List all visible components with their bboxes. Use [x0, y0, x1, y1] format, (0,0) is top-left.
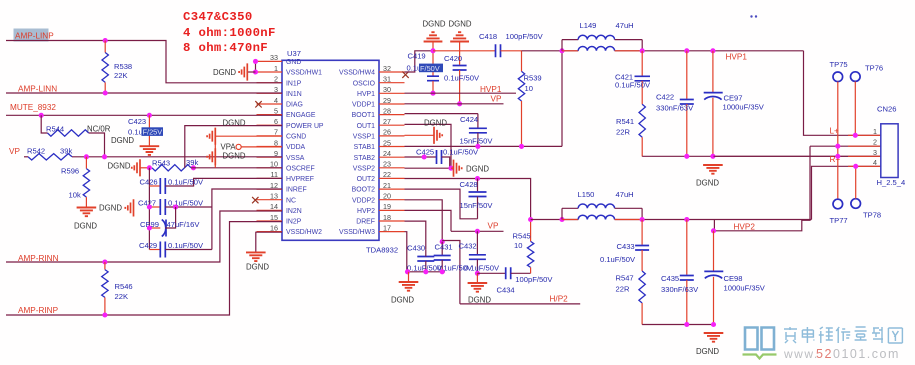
U37 pin numbers: [270, 53, 391, 232]
test point TP75: [833, 72, 843, 82]
svg-text:100pF/50V: 100pF/50V: [515, 275, 553, 284]
svg-text:BOOT2: BOOT2: [352, 187, 376, 194]
svg-text:DGND: DGND: [424, 119, 447, 128]
capacitor C420: [459, 42, 461, 65]
svg-text:4 ohm:1000nF: 4 ohm:1000nF: [183, 26, 276, 40]
svg-text:3: 3: [873, 148, 877, 157]
wire R544 to VP node: [89, 133, 105, 157]
node R543 right: [191, 165, 196, 170]
svg-text:CGND: CGND: [286, 134, 306, 141]
svg-text:0101.com: 0101.com: [833, 347, 900, 361]
node L150 right: [640, 217, 645, 222]
capacitor C425: [437, 150, 442, 164]
svg-text:DIAG: DIAG: [286, 102, 303, 109]
node R539 bottom: [519, 144, 524, 149]
ground flag DGND at R543: [132, 159, 140, 176]
svg-text:10: 10: [514, 241, 522, 250]
test point TP78: [851, 199, 861, 209]
wire OUT1 node main top: [522, 50, 579, 52]
resistor R538: [104, 41, 106, 53]
svg-text:C430: C430: [407, 244, 425, 253]
wire pin 17 VSSD/HW3 down to ground bus: [405, 232, 407, 272]
watermark logo book icon: [745, 328, 774, 350]
node CE97 bottom ground: [710, 154, 715, 159]
svg-text:DGND: DGND: [696, 347, 719, 356]
svg-text:VSSD/HW1: VSSD/HW1: [286, 70, 322, 77]
wire cap bus left: [148, 168, 150, 250]
node C422 bottom: [684, 154, 689, 159]
svg-text:H/P2: H/P2: [550, 295, 569, 304]
svg-text:DGND: DGND: [696, 179, 719, 188]
svg-text:VSSD/HW4: VSSD/HW4: [339, 70, 375, 77]
node VP / R596: [84, 154, 89, 159]
svg-text:47uF/16V: 47uF/16V: [167, 220, 201, 229]
ground DGND left mini: [408, 272, 410, 282]
capacitor C423: [148, 115, 150, 128]
svg-text:C419: C419: [408, 52, 426, 61]
svg-text:R539: R539: [524, 74, 542, 83]
svg-text:DGND: DGND: [111, 136, 134, 145]
ground DGND under C423: [140, 146, 160, 155]
node C424 bottom: [475, 144, 480, 149]
svg-text:AMP-LINN: AMP-LINN: [18, 85, 57, 94]
node CE98 top: [711, 228, 716, 233]
svg-text:CE97: CE97: [724, 94, 743, 103]
wire VP row bottom: [451, 230, 504, 232]
svg-text:IN1N: IN1N: [286, 91, 302, 98]
svg-text:C423: C423: [128, 117, 146, 126]
svg-text:C432: C432: [459, 242, 477, 251]
svg-text:INREF: INREF: [286, 187, 307, 194]
wire HVP2 jog down: [714, 146, 810, 231]
wire mini ground bus: [407, 271, 445, 273]
wire pin 19 HVP2 down to VP row: [405, 210, 452, 231]
svg-text:C422: C422: [656, 93, 674, 102]
svg-text:DGND: DGND: [223, 152, 246, 161]
svg-text:VSSP1: VSSP1: [353, 134, 375, 141]
resistor R539: [521, 51, 523, 72]
no-connect X pin 31 OSCIO: [402, 72, 408, 78]
node pin 24: [422, 154, 427, 159]
no-connect X pin 4 DIAG: [255, 101, 261, 107]
svg-text:F/50V: F/50V: [420, 64, 440, 73]
svg-text:L149: L149: [580, 21, 597, 30]
svg-text:10k: 10k: [69, 191, 81, 200]
svg-text:R545: R545: [513, 232, 531, 241]
ground DGND pin 16: [246, 252, 266, 261]
svg-text:22K: 22K: [114, 71, 128, 80]
capacitor C432: [476, 231, 478, 255]
resistor R547: [639, 271, 645, 303]
wire pin 20 VDDP2 down to C431: [405, 200, 443, 242]
svg-text:VP: VP: [488, 222, 499, 231]
svg-text:OSCIO: OSCIO: [353, 80, 376, 87]
wire pin 21 BOOT2 to C428 bottom: [405, 189, 478, 219]
node C427 / CE99 branch: [173, 204, 178, 209]
capacitor C428: [477, 179, 479, 192]
inductor L150: [561, 208, 563, 219]
svg-text:R541: R541: [616, 117, 634, 126]
svg-text:IN2N: IN2N: [286, 208, 302, 215]
node TP78 row4: [853, 164, 858, 169]
svg-text:HVP2: HVP2: [734, 223, 756, 232]
node AMP-LINP / R538: [103, 38, 108, 43]
ground flag DGND pin 26 VSSP1: [405, 134, 435, 136]
svg-text:C428: C428: [460, 180, 478, 189]
wire pin 24 STAB2 to C425: [405, 156, 437, 158]
wire HP2 stub: [460, 303, 580, 305]
wire OUT2 node main bottom: [531, 219, 579, 221]
resistor R546: [104, 262, 106, 270]
ground flag DGND at C427: [125, 199, 133, 216]
svg-text:22R: 22R: [616, 285, 630, 294]
capacitor CE97 polarized: [712, 51, 714, 92]
node C420 VP: [457, 101, 462, 106]
wire pin 7 CGND: [215, 135, 282, 137]
wire bottom ground bus: [642, 324, 713, 326]
node TP75 row3: [835, 154, 840, 159]
svg-text:HVP1: HVP1: [726, 53, 748, 62]
svg-text:VPA: VPA: [221, 143, 237, 152]
svg-text:0.1uF/50V: 0.1uF/50V: [443, 148, 479, 157]
wire top ground bus: [642, 155, 881, 157]
svg-text:STAB2: STAB2: [354, 155, 375, 162]
svg-text:NC: NC: [286, 197, 296, 204]
capacitor C435: [686, 220, 688, 275]
svg-text:TP75: TP75: [830, 60, 848, 69]
svg-text:VDDA: VDDA: [286, 144, 306, 151]
svg-text:R544: R544: [46, 125, 64, 134]
svg-text:0.1uF/50V: 0.1uF/50V: [615, 81, 651, 90]
svg-text:IN2P: IN2P: [286, 219, 302, 226]
svg-text:U37: U37: [287, 49, 301, 58]
svg-text:DREF: DREF: [356, 219, 375, 226]
wire pin 18 DREF down to C430: [405, 221, 426, 250]
svg-text:BOOT1: BOOT1: [352, 112, 376, 119]
wire VP row to pin 9 VSSA: [24, 156, 28, 158]
capacitor C424: [477, 114, 479, 128]
svg-text:330nF/63V: 330nF/63V: [661, 285, 699, 294]
capacitor C427: [149, 206, 160, 208]
node C430 bottom: [423, 269, 428, 274]
wire CN26 row 3 ground: [714, 155, 881, 157]
svg-text:F/25V: F/25V: [143, 128, 163, 137]
node AMP-RINP / R546: [102, 312, 107, 317]
ground flag DGND pin 23: [451, 167, 454, 169]
wire DGND bus pins 7-9: [214, 129, 216, 168]
wire STAB1 riser to L149 left: [561, 51, 563, 147]
wire pin 12 INREF down to C427 C429: [212, 189, 282, 250]
wire pin 6 POWER UP down to R543 row: [185, 126, 282, 168]
svg-text:C431: C431: [435, 243, 453, 252]
svg-text:OUT2: OUT2: [357, 176, 376, 183]
svg-text:C420: C420: [444, 54, 462, 63]
svg-text:R543: R543: [152, 159, 170, 168]
wire pin 27 OUT1 down: [405, 124, 452, 168]
svg-text:R547: R547: [616, 274, 634, 283]
svg-text:DGND: DGND: [449, 20, 472, 29]
connector CN26 body: [881, 124, 898, 178]
svg-text:47uH: 47uH: [616, 190, 634, 199]
svg-text:www.: www.: [783, 347, 819, 361]
capacitor CE98 polarized: [713, 231, 715, 271]
inductor L149: [561, 40, 563, 51]
svg-text:DGND: DGND: [466, 165, 489, 174]
svg-text:DGND: DGND: [99, 204, 122, 213]
svg-text:CE98: CE98: [724, 274, 743, 283]
resistor R542: [28, 154, 72, 160]
svg-text:OUT1: OUT1: [357, 123, 376, 130]
svg-text:AMP-RINP: AMP-RINP: [18, 306, 59, 315]
svg-text:0.1uF/50V: 0.1uF/50V: [464, 264, 500, 273]
svg-text:C418: C418: [479, 32, 497, 41]
capacitor CE99 polarized: [149, 227, 160, 229]
ground flag up DGND for C419: [424, 32, 443, 41]
stray marks top right: [750, 15, 752, 17]
capacitor C426: [149, 185, 160, 187]
ground flag up DGND for C420: [450, 32, 469, 41]
wire pin 23 VSSP2: [405, 167, 452, 169]
svg-text:1000uF/35V: 1000uF/35V: [724, 284, 766, 293]
svg-text:TP76: TP76: [865, 64, 883, 73]
svg-text:TDA8932: TDA8932: [366, 246, 398, 255]
svg-text:MUTE_8932: MUTE_8932: [10, 103, 56, 112]
svg-text:STAB1: STAB1: [354, 144, 375, 151]
test point TP77: [833, 199, 843, 209]
node C435 top: [684, 217, 689, 222]
node C435 top - wire junction: [684, 48, 689, 53]
svg-text:2: 2: [873, 138, 877, 147]
node AMP-LINN / R538: [103, 90, 108, 95]
wire CN26 row 2 L-: [810, 145, 881, 147]
svg-text:VP: VP: [9, 147, 20, 156]
watermark chinese text: [784, 327, 902, 343]
svg-text:22R: 22R: [616, 128, 630, 137]
resistor R544: [48, 130, 89, 136]
power port VPA pin 8: [241, 146, 282, 148]
svg-text:VSSD/HW3: VSSD/HW3: [339, 229, 375, 236]
svg-text:22K: 22K: [115, 292, 129, 301]
svg-text:0.1uF/50V: 0.1uF/50V: [168, 178, 204, 187]
ground DGND top channel: [703, 165, 723, 174]
svg-text:VP: VP: [491, 95, 502, 104]
node MUTE / R544: [39, 113, 44, 118]
node VP / R544: [102, 154, 107, 159]
node R545 top: [528, 217, 533, 222]
wire AMP-RINN to pin 14 IN2N: [6, 211, 282, 262]
svg-text:C425: C425: [416, 148, 434, 157]
node C432 bottom: [475, 271, 480, 276]
svg-text:DGND: DGND: [108, 161, 131, 170]
ground DGND under R596: [77, 208, 97, 217]
svg-text:DGND: DGND: [391, 296, 414, 305]
capacitor C422: [686, 51, 688, 99]
node CE99 bus: [147, 225, 152, 230]
node C431 top: [440, 239, 445, 244]
svg-text:OSCREF: OSCREF: [286, 165, 315, 172]
svg-text:TP77: TP77: [830, 216, 848, 225]
svg-text:C433: C433: [617, 242, 635, 251]
svg-text:100pF/50V: 100pF/50V: [506, 32, 544, 41]
node C427 bus: [147, 204, 152, 209]
svg-text:R596: R596: [61, 167, 79, 176]
U37 left pin stubs: [257, 61, 283, 231]
svg-text:R538: R538: [114, 62, 132, 71]
wire TP78 stem to row 4: [855, 166, 857, 198]
wire R544 branch: [41, 115, 47, 133]
wire pin 25 STAB1 row to L149 left node: [405, 145, 563, 147]
capacitor C430: [417, 257, 434, 262]
svg-text:DGND: DGND: [74, 222, 97, 231]
svg-text:VSSD/HW2: VSSD/HW2: [286, 229, 322, 236]
svg-text:0.1uF/50V: 0.1uF/50V: [444, 74, 480, 83]
svg-text:C426: C426: [140, 178, 158, 187]
capacitor C431: [441, 242, 443, 256]
svg-text:GND: GND: [286, 59, 301, 66]
wire VDDP2 jog to HP2 branch: [442, 241, 460, 304]
capacitor C418: [433, 50, 496, 52]
node CE98 bottom: [711, 322, 716, 327]
svg-text:C424: C424: [460, 115, 478, 124]
svg-text:C435: C435: [661, 274, 679, 283]
node CE97 top: [710, 48, 715, 53]
wire HVP1 row pin 30: [405, 92, 517, 94]
node C432 top: [475, 229, 480, 234]
title note C347&C350: [183, 10, 276, 55]
capacitor C419: [432, 42, 434, 76]
node mini bus left: [405, 269, 410, 274]
capacitor C434: [477, 272, 505, 274]
capacitor C429: [149, 249, 160, 251]
node C431 bottom: [440, 269, 445, 274]
node pin 33: [253, 59, 258, 64]
wire CN26 row 4 R+: [812, 166, 881, 219]
node C419 top: [430, 48, 435, 53]
svg-text:10: 10: [525, 84, 533, 93]
resistor R543: [152, 165, 191, 171]
svg-text:0.1uF/50V: 0.1uF/50V: [600, 255, 636, 264]
svg-text:TP78: TP78: [863, 211, 881, 220]
svg-text:R542: R542: [27, 147, 45, 156]
svg-text:L150: L150: [578, 190, 595, 199]
svg-text:47uH: 47uH: [616, 21, 634, 30]
svg-text:39k: 39k: [60, 147, 72, 156]
op-amp U37 IC body TDA8932: [282, 60, 379, 240]
node pin 23 DGND: [448, 166, 453, 171]
svg-text:CN26: CN26: [877, 105, 896, 114]
wire pin 33 GND / pin 1 VSSD-HW1 to DGND flag: [255, 61, 257, 72]
wire pin 16 VSSD/HW2 to ground: [256, 232, 282, 252]
CN26 pin numbers: [873, 127, 877, 167]
wire AMP-RINP to pin 15 IN2P: [6, 222, 282, 315]
svg-text:DGND: DGND: [213, 68, 236, 77]
svg-text:52: 52: [816, 347, 833, 361]
svg-text:DGND: DGND: [223, 119, 246, 128]
node TP76 row1: [853, 133, 858, 138]
wire AMP-LINN to pin 3 IN1N: [6, 92, 282, 94]
svg-text:HVPREF: HVPREF: [286, 176, 314, 183]
svg-text:C434: C434: [497, 286, 515, 295]
svg-text:DGND: DGND: [423, 20, 446, 29]
svg-text:DGND: DGND: [468, 296, 491, 305]
svg-text:HVP1: HVP1: [357, 91, 375, 98]
ground flag DGND pin 7: [207, 128, 215, 145]
node L149 right: [640, 48, 645, 53]
node MUTE / C423: [147, 113, 152, 118]
ground DGND under C432: [476, 273, 478, 282]
svg-text:H_2.5_4: H_2.5_4: [877, 178, 906, 187]
svg-text:8 ohm:470nF: 8 ohm:470nF: [183, 41, 268, 55]
svg-text:R546: R546: [115, 282, 133, 291]
resistor R541: [639, 104, 645, 137]
wire pin 22 OUT2 down to R545 node: [405, 179, 531, 220]
U37 right pin stubs: [379, 72, 405, 232]
wire TP76 stem to row 1: [854, 81, 856, 135]
wire HVP1 down to CN26 pin 1: [804, 51, 881, 136]
svg-text:VSSA: VSSA: [286, 155, 305, 162]
svg-text:330nF/63V: 330nF/63V: [656, 104, 694, 113]
test point TP76: [851, 72, 861, 82]
node L149 left: [559, 48, 564, 53]
svg-text:15nF/50V: 15nF/50V: [460, 201, 494, 210]
svg-text:ENGAGE: ENGAGE: [286, 112, 316, 119]
node C435 bottom: [684, 322, 689, 327]
resistor R545: [530, 220, 532, 242]
no-connect X pin 13 NC: [252, 197, 258, 203]
svg-text:C429: C429: [139, 241, 157, 250]
wire R543 to pin 10 OSCREF: [191, 167, 282, 169]
wire TP75 stem to rows 2-3 and TP77: [837, 82, 839, 200]
U37 pin names: [286, 59, 376, 236]
wire AMP-LINP to pin 2 IN1P: [6, 41, 282, 83]
wire pin 28 BOOT1 to C424: [405, 113, 478, 115]
node AMP-RINN / R546: [102, 259, 107, 264]
svg-text:HVP1: HVP1: [480, 85, 502, 94]
node pin 1: [253, 69, 258, 74]
wire VP row pin 29: [405, 103, 504, 105]
ground flag DGND pins 33-1: [247, 71, 255, 73]
svg-text:4: 4: [873, 158, 877, 167]
node C428 top: [475, 176, 480, 181]
svg-text:C347&C350: C347&C350: [183, 10, 253, 24]
red pin stubs CN26: [848, 135, 881, 166]
node R543 left: [147, 165, 152, 170]
svg-text:0.1uF/50V: 0.1uF/50V: [168, 241, 204, 250]
node C419 HVP1: [430, 91, 435, 96]
svg-text:VDDP2: VDDP2: [352, 197, 375, 204]
svg-text:POWER UP: POWER UP: [286, 123, 324, 130]
node TP75 row2: [835, 144, 840, 149]
svg-text:IN1P: IN1P: [286, 80, 302, 87]
svg-text:AMP-LINP: AMP-LINP: [15, 32, 54, 41]
capacitor C421: [641, 51, 643, 76]
svg-text:DGND: DGND: [246, 263, 269, 272]
net label AMP-LINP: [14, 29, 49, 42]
ground DGND bottom channel: [704, 333, 724, 342]
svg-text:NC/0R: NC/0R: [87, 125, 111, 134]
capacitor C433: [641, 220, 643, 245]
svg-text:15nF/50V: 15nF/50V: [460, 137, 494, 146]
wire pin 32 VSSD/HW4 up to DGND node: [405, 51, 434, 72]
wire pin 9 VSSA flag: [207, 148, 215, 165]
svg-text:VSSP2: VSSP2: [353, 165, 375, 172]
wire MUTE_8932 to pin 5 ENGAGE: [6, 114, 282, 116]
svg-text:1000uF/35V: 1000uF/35V: [723, 103, 765, 112]
node L150 left: [559, 217, 564, 222]
svg-text:VDDP1: VDDP1: [352, 102, 375, 109]
svg-text:HVP2: HVP2: [357, 208, 375, 215]
resistor R596: [85, 157, 87, 169]
